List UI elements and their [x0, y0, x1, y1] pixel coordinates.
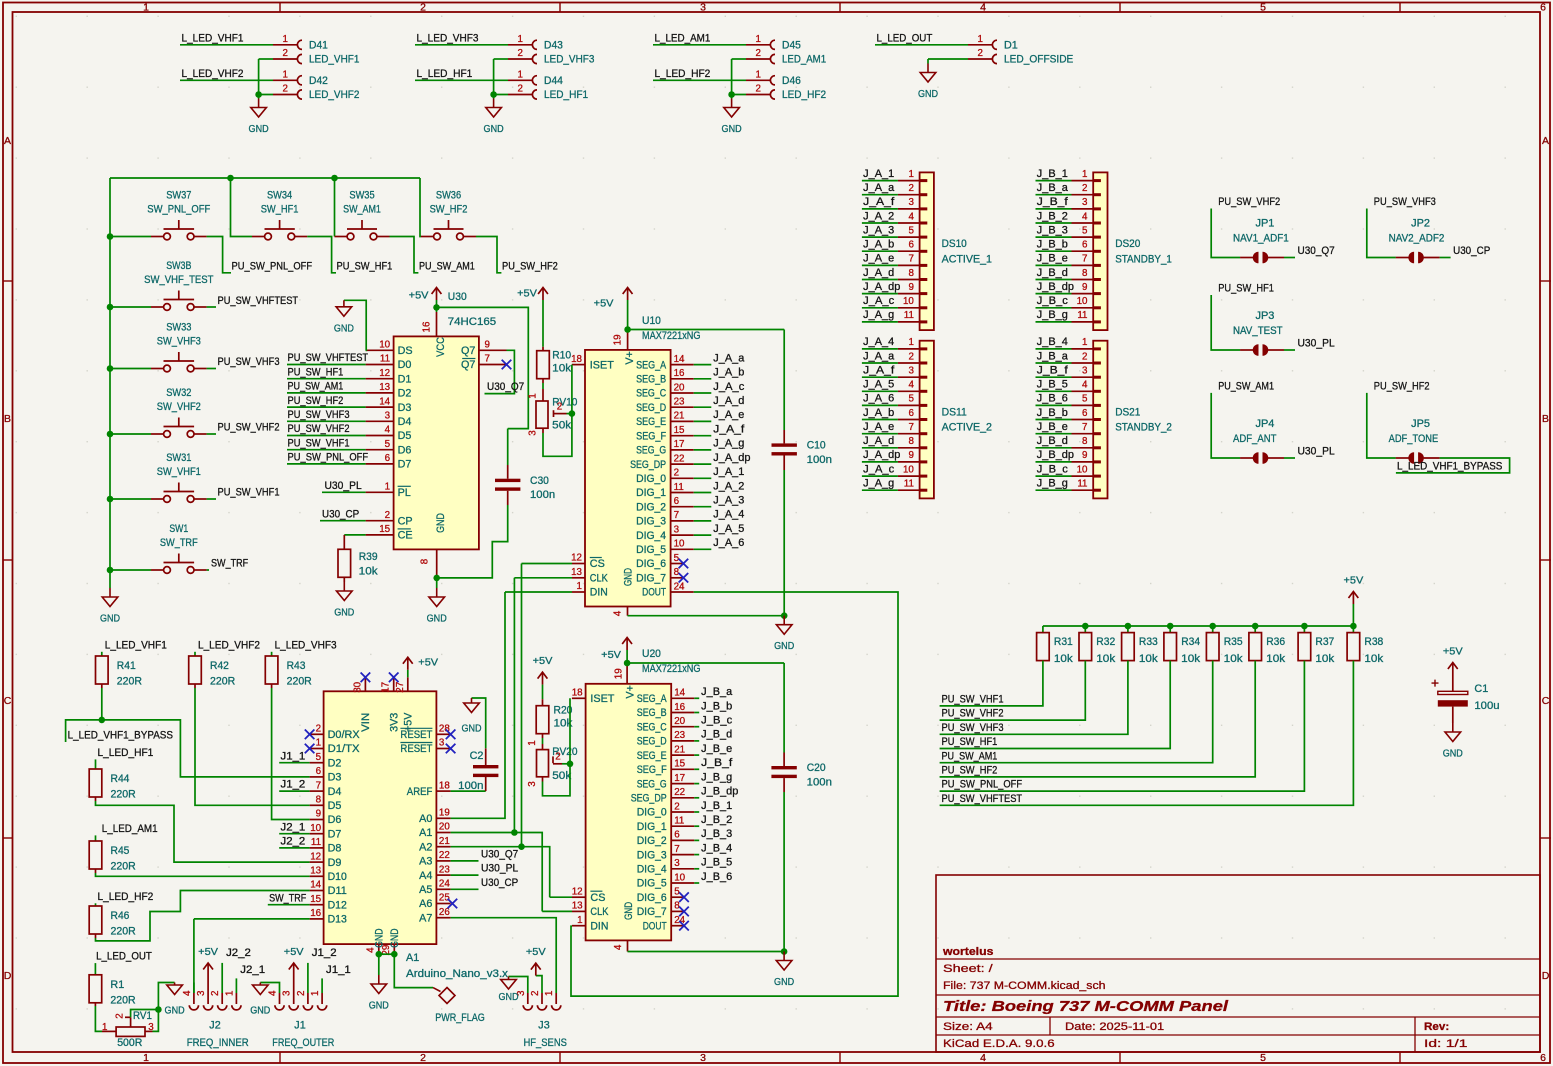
svg-text:R33: R33 [1139, 636, 1158, 648]
svg-text:100n: 100n [807, 777, 832, 789]
svg-text:2: 2 [420, 1052, 426, 1064]
svg-text:20: 20 [439, 822, 450, 833]
svg-text:D: D [4, 970, 12, 982]
svg-text:10: 10 [379, 340, 390, 351]
svg-text:18: 18 [572, 688, 583, 699]
svg-text:FREQ_INNER: FREQ_INNER [187, 1037, 249, 1049]
svg-text:J_B_c: J_B_c [1037, 295, 1069, 307]
svg-text:9: 9 [908, 282, 913, 293]
svg-text:5: 5 [316, 752, 322, 763]
svg-text:PU_SW_VHF1: PU_SW_VHF1 [288, 437, 350, 449]
svg-text:9: 9 [485, 340, 490, 351]
svg-text:24: 24 [674, 581, 685, 592]
svg-text:R10: R10 [552, 350, 571, 362]
svg-text:5: 5 [385, 439, 391, 450]
svg-text:+5V: +5V [1443, 646, 1463, 658]
svg-text:9: 9 [316, 809, 321, 820]
svg-text:SEG_D: SEG_D [637, 736, 667, 748]
svg-text:4: 4 [613, 944, 624, 950]
svg-text:2: 2 [518, 48, 523, 59]
svg-text:A4: A4 [419, 870, 432, 882]
svg-text:3: 3 [674, 524, 680, 535]
svg-text:ISET: ISET [590, 693, 614, 705]
svg-text:C1: C1 [1474, 683, 1488, 695]
svg-text:J_B_e: J_B_e [701, 743, 732, 755]
svg-text:11: 11 [1077, 310, 1087, 321]
svg-text:21: 21 [439, 836, 450, 847]
svg-text:4: 4 [182, 990, 193, 996]
svg-text:LED_HF1: LED_HF1 [544, 89, 588, 101]
svg-text:GND: GND [427, 613, 447, 625]
svg-text:D1: D1 [1004, 40, 1018, 52]
svg-text:U30_CP: U30_CP [1453, 245, 1490, 257]
svg-text:L_LED_OUT: L_LED_OUT [877, 33, 933, 45]
svg-text:2: 2 [908, 351, 913, 362]
svg-text:10: 10 [1077, 464, 1088, 475]
svg-text:PU_SW_PNL_OFF: PU_SW_PNL_OFF [942, 779, 1023, 791]
svg-text:L_LED_VHF3: L_LED_VHF3 [275, 639, 337, 651]
svg-text:11: 11 [904, 310, 914, 321]
svg-text:2: 2 [674, 801, 679, 812]
svg-text:3: 3 [674, 858, 680, 869]
svg-text:FREQ_OUTER: FREQ_OUTER [272, 1037, 334, 1049]
svg-text:J_A_dp: J_A_dp [713, 452, 750, 464]
svg-text:DIG_2: DIG_2 [637, 835, 667, 847]
svg-text:4: 4 [1082, 380, 1088, 391]
svg-text:J_A_c: J_A_c [863, 463, 895, 475]
svg-text:R1: R1 [110, 979, 124, 991]
svg-text:12: 12 [572, 886, 583, 897]
svg-text:A: A [1542, 135, 1549, 147]
svg-text:GND: GND [369, 1000, 389, 1012]
svg-text:21: 21 [674, 744, 685, 755]
svg-text:J_A_5: J_A_5 [713, 523, 744, 535]
svg-text:D8: D8 [328, 843, 342, 855]
svg-text:J1_2: J1_2 [312, 947, 337, 959]
svg-text:100n: 100n [807, 454, 832, 466]
svg-text:4: 4 [268, 990, 279, 996]
svg-text:3: 3 [439, 738, 445, 749]
svg-text:D3: D3 [398, 402, 412, 414]
svg-text:5: 5 [1082, 394, 1088, 405]
svg-text:U30_Q7: U30_Q7 [481, 848, 518, 860]
svg-text:5: 5 [1082, 225, 1088, 236]
svg-text:Q7: Q7 [461, 359, 475, 371]
svg-text:2: 2 [530, 991, 541, 996]
svg-text:STANDBY_1: STANDBY_1 [1115, 253, 1172, 265]
svg-text:3: 3 [700, 1052, 706, 1064]
svg-text:14: 14 [379, 396, 390, 407]
svg-text:8: 8 [674, 567, 680, 578]
svg-text:3: 3 [148, 1022, 154, 1033]
svg-text:4: 4 [908, 380, 914, 391]
svg-text:+5V: +5V [284, 946, 304, 958]
svg-text:SW_TRF: SW_TRF [211, 558, 249, 570]
svg-text:LED_OFFSIDE: LED_OFFSIDE [1004, 54, 1073, 66]
svg-text:2: 2 [756, 84, 761, 95]
svg-text:J_B_2: J_B_2 [701, 814, 732, 826]
svg-text:PU_SW_VHF3: PU_SW_VHF3 [942, 722, 1004, 734]
svg-text:ISET: ISET [590, 359, 614, 371]
svg-text:DIG_3: DIG_3 [637, 849, 667, 861]
svg-text:DOUT: DOUT [642, 587, 666, 599]
svg-text:7: 7 [1082, 254, 1087, 265]
svg-text:6: 6 [1082, 408, 1088, 419]
svg-text:L_LED_AM1: L_LED_AM1 [102, 823, 158, 835]
svg-text:A2: A2 [419, 841, 432, 853]
svg-text:7: 7 [1082, 422, 1087, 433]
svg-text:SEG_B: SEG_B [637, 707, 667, 719]
svg-text:SW_HF1: SW_HF1 [261, 204, 299, 216]
svg-text:B: B [4, 413, 11, 425]
svg-text:D9: D9 [328, 857, 342, 869]
svg-text:D6: D6 [328, 814, 342, 826]
svg-text:2: 2 [978, 48, 983, 59]
svg-text:100n: 100n [458, 780, 483, 792]
svg-text:PU_SW_HF1: PU_SW_HF1 [942, 736, 998, 748]
svg-text:10: 10 [903, 296, 914, 307]
svg-text:1: 1 [385, 482, 390, 493]
svg-text:SW36: SW36 [436, 190, 461, 202]
svg-text:22: 22 [439, 850, 450, 861]
svg-text:1: 1 [518, 34, 523, 45]
svg-text:A: A [4, 135, 11, 147]
svg-text:A1: A1 [406, 952, 419, 964]
svg-text:D2: D2 [328, 757, 342, 769]
svg-text:J_A_5: J_A_5 [863, 379, 894, 391]
svg-text:J_B_dp: J_B_dp [701, 786, 738, 798]
svg-text:SEG_C: SEG_C [637, 721, 667, 733]
svg-text:Date: 2025-11-01: Date: 2025-11-01 [1065, 1021, 1164, 1033]
svg-text:10k: 10k [1315, 653, 1335, 665]
svg-text:1: 1 [143, 2, 149, 14]
svg-text:C20: C20 [807, 762, 826, 774]
svg-text:1: 1 [143, 1052, 149, 1064]
svg-text:SW_VHF2: SW_VHF2 [157, 401, 201, 413]
svg-text:J_A_3: J_A_3 [863, 224, 894, 236]
svg-text:R31: R31 [1054, 636, 1073, 648]
svg-text:D0/RX: D0/RX [328, 729, 360, 741]
svg-text:J_A_6: J_A_6 [863, 393, 894, 405]
svg-text:U20: U20 [642, 648, 661, 660]
svg-text:DIG_2: DIG_2 [636, 501, 666, 513]
svg-text:J_B_g: J_B_g [701, 771, 732, 783]
svg-text:3: 3 [282, 990, 293, 996]
svg-text:C: C [4, 695, 12, 707]
svg-text:J_B_5: J_B_5 [701, 857, 732, 869]
svg-text:J_B_b: J_B_b [701, 700, 732, 712]
svg-text:4: 4 [385, 425, 391, 436]
svg-text:NAV1_ADF1: NAV1_ADF1 [1233, 233, 1289, 245]
svg-text:J_B_f: J_B_f [701, 757, 733, 769]
svg-text:2: 2 [283, 48, 288, 59]
svg-text:2: 2 [1082, 183, 1087, 194]
svg-text:9: 9 [908, 450, 913, 461]
svg-text:D10: D10 [328, 871, 347, 883]
svg-text:7: 7 [908, 422, 913, 433]
svg-text:DIG_7: DIG_7 [637, 906, 667, 918]
svg-text:13: 13 [572, 901, 583, 912]
svg-text:3: 3 [527, 430, 538, 436]
svg-text:SW31: SW31 [166, 452, 191, 464]
svg-text:J_A_g: J_A_g [863, 309, 894, 321]
svg-text:D42: D42 [309, 75, 328, 87]
svg-text:L_LED_VHF1: L_LED_VHF1 [105, 639, 167, 651]
svg-text:SEG_F: SEG_F [636, 430, 666, 442]
svg-text:2: 2 [674, 468, 679, 479]
svg-text:CLK: CLK [590, 906, 609, 918]
svg-text:PU_SW_AM1: PU_SW_AM1 [288, 381, 344, 393]
svg-text:D2: D2 [398, 388, 412, 400]
svg-text:Size: A4: Size: A4 [943, 1021, 993, 1033]
svg-text:500R: 500R [117, 1037, 142, 1049]
svg-text:+5V: +5V [594, 298, 614, 310]
svg-text:JP3: JP3 [1256, 310, 1275, 322]
svg-text:2: 2 [420, 2, 426, 14]
svg-text:J_A_4: J_A_4 [713, 509, 744, 521]
svg-text:SW33: SW33 [166, 322, 191, 334]
svg-text:220R: 220R [110, 994, 135, 1006]
svg-text:2: 2 [210, 991, 221, 996]
svg-text:1: 1 [224, 991, 235, 996]
svg-text:GND: GND [484, 123, 504, 135]
svg-text:17: 17 [381, 682, 392, 693]
svg-text:6: 6 [674, 496, 680, 507]
svg-text:J2_1: J2_1 [281, 821, 306, 833]
svg-text:10: 10 [903, 464, 914, 475]
svg-text:6: 6 [908, 240, 914, 251]
svg-text:15: 15 [310, 894, 321, 905]
svg-text:18: 18 [439, 780, 450, 791]
svg-text:D5: D5 [398, 430, 412, 442]
svg-text:ACTIVE_1: ACTIVE_1 [942, 253, 992, 265]
svg-text:U30_Q7: U30_Q7 [487, 381, 524, 393]
svg-text:3: 3 [1082, 197, 1088, 208]
svg-text:SEG_E: SEG_E [637, 750, 667, 762]
svg-text:J1_1: J1_1 [326, 964, 351, 976]
svg-text:J_B_b: J_B_b [1037, 239, 1068, 251]
svg-text:GND: GND [918, 88, 938, 100]
svg-text:U30_Q7: U30_Q7 [1298, 245, 1335, 257]
svg-text:10k: 10k [1096, 653, 1116, 665]
svg-text:LED_AM1: LED_AM1 [782, 54, 826, 66]
svg-text:PU_SW_HF2: PU_SW_HF2 [942, 765, 998, 777]
svg-text:3: 3 [196, 990, 207, 996]
svg-text:23: 23 [674, 397, 685, 408]
svg-text:D: D [1542, 970, 1550, 982]
svg-text:J_A_4: J_A_4 [863, 336, 894, 348]
svg-text:SW_AM1: SW_AM1 [343, 204, 381, 216]
svg-text:SW3B: SW3B [166, 260, 191, 272]
svg-text:9: 9 [1082, 282, 1087, 293]
svg-text:PU_SW_HF2: PU_SW_HF2 [502, 260, 558, 272]
svg-text:8: 8 [1082, 268, 1088, 279]
svg-text:CLK: CLK [590, 573, 609, 585]
svg-text:2: 2 [555, 752, 560, 763]
svg-text:2: 2 [296, 991, 307, 996]
svg-text:J_B_4: J_B_4 [701, 842, 732, 854]
svg-text:26: 26 [439, 907, 450, 918]
svg-text:5: 5 [1260, 1052, 1266, 1064]
svg-text:D6: D6 [398, 444, 412, 456]
svg-text:1: 1 [908, 337, 913, 348]
svg-text:2: 2 [1082, 351, 1087, 362]
svg-text:PU_SW_VHF3: PU_SW_VHF3 [218, 356, 280, 368]
svg-text:D0: D0 [398, 359, 412, 371]
svg-text:J_B_2: J_B_2 [1037, 210, 1068, 222]
svg-text:SW_PNL_OFF: SW_PNL_OFF [147, 204, 210, 216]
svg-text:PU_SW_AM1: PU_SW_AM1 [942, 750, 998, 762]
svg-text:6: 6 [385, 453, 391, 464]
svg-text:DIN: DIN [590, 920, 608, 932]
svg-text:SEG_D: SEG_D [636, 402, 666, 414]
svg-text:1: 1 [756, 70, 761, 81]
svg-text:L_LED_VHF1_BYPASS: L_LED_VHF1_BYPASS [68, 730, 173, 742]
svg-text:J_B_f: J_B_f [1037, 365, 1069, 377]
svg-text:PU_SW_VHF2: PU_SW_VHF2 [942, 708, 1004, 720]
svg-text:U30_PL: U30_PL [481, 863, 518, 875]
svg-text:DIN: DIN [590, 587, 608, 599]
svg-text:R45: R45 [111, 845, 130, 857]
svg-text:ADF_ANT: ADF_ANT [1233, 433, 1277, 445]
svg-text:GND: GND [461, 723, 481, 735]
svg-text:8: 8 [908, 268, 914, 279]
svg-text:L_LED_VHF3: L_LED_VHF3 [417, 33, 479, 45]
svg-text:D3: D3 [328, 772, 342, 784]
svg-text:KiCad E.D.A. 9.0.6: KiCad E.D.A. 9.0.6 [943, 1038, 1055, 1050]
svg-text:PU_SW_HF2: PU_SW_HF2 [288, 395, 344, 407]
svg-text:J_A_a: J_A_a [863, 350, 894, 362]
svg-text:19: 19 [613, 334, 624, 345]
svg-text:+5V: +5V [601, 649, 621, 661]
svg-text:PU_SW_VHF2: PU_SW_VHF2 [218, 422, 280, 434]
svg-text:U30_PL: U30_PL [325, 480, 362, 492]
svg-text:R42: R42 [210, 660, 229, 672]
svg-text:DS20: DS20 [1115, 238, 1140, 250]
svg-text:J_B_6: J_B_6 [701, 871, 732, 883]
svg-text:11: 11 [904, 479, 914, 490]
svg-text:DS10: DS10 [942, 238, 967, 250]
svg-text:PU_SW_AM1: PU_SW_AM1 [1218, 380, 1274, 392]
svg-text:J_B_3: J_B_3 [1037, 224, 1068, 236]
svg-text:+5V: +5V [418, 657, 438, 669]
svg-text:16: 16 [674, 368, 685, 379]
svg-text:5: 5 [908, 225, 914, 236]
svg-text:SEG_A: SEG_A [636, 359, 667, 371]
svg-text:J2: J2 [209, 1020, 220, 1032]
svg-text:13: 13 [310, 866, 321, 877]
svg-text:20: 20 [674, 382, 685, 393]
svg-text:R32: R32 [1096, 636, 1115, 648]
svg-text:U30_CP: U30_CP [322, 508, 359, 520]
svg-text:J_A_2: J_A_2 [713, 480, 744, 492]
svg-text:R44: R44 [111, 773, 130, 785]
svg-text:100u: 100u [1474, 700, 1499, 712]
svg-text:GND: GND [498, 991, 518, 1003]
svg-text:50k: 50k [552, 420, 572, 432]
svg-text:J_A_g: J_A_g [863, 478, 894, 490]
svg-text:J_A_b: J_A_b [713, 367, 744, 379]
svg-text:SW32: SW32 [166, 387, 191, 399]
svg-text:3: 3 [908, 197, 914, 208]
svg-text:SW37: SW37 [166, 190, 191, 202]
svg-text:VCC: VCC [435, 337, 447, 357]
svg-text:7: 7 [485, 354, 490, 365]
svg-text:J_B_d: J_B_d [1037, 267, 1068, 279]
svg-text:D4: D4 [328, 786, 342, 798]
svg-text:Title: Boeing 737 M-COMM Panel: Title: Boeing 737 M-COMM Panel [943, 999, 1229, 1015]
svg-text:J_A_f: J_A_f [863, 196, 895, 208]
svg-text:7: 7 [908, 254, 913, 265]
svg-text:1: 1 [283, 34, 288, 45]
svg-text:6: 6 [1540, 1052, 1546, 1064]
svg-text:4: 4 [980, 1052, 986, 1064]
svg-text:SEG_G: SEG_G [636, 445, 666, 457]
svg-text:J_A_e: J_A_e [863, 253, 894, 265]
svg-text:2: 2 [316, 724, 321, 735]
svg-text:V+: V+ [624, 351, 636, 365]
svg-text:A7: A7 [419, 912, 432, 924]
svg-text:5: 5 [1260, 2, 1266, 14]
svg-text:R38: R38 [1364, 636, 1383, 648]
svg-text:D12: D12 [328, 899, 347, 911]
svg-text:D46: D46 [782, 75, 801, 87]
svg-text:PU_SW_VHFTEST: PU_SW_VHFTEST [218, 295, 299, 307]
svg-text:SW_TRF: SW_TRF [269, 892, 307, 904]
svg-text:J_B_c: J_B_c [701, 715, 733, 727]
svg-text:12: 12 [379, 368, 390, 379]
svg-text:A6: A6 [419, 898, 432, 910]
svg-text:J_A_d: J_A_d [713, 395, 744, 407]
svg-text:+5V: +5V [517, 288, 537, 300]
svg-text:LED_VHF3: LED_VHF3 [544, 54, 594, 66]
svg-text:18: 18 [571, 354, 582, 365]
svg-text:14: 14 [674, 354, 685, 365]
svg-text:PU_SW_VHFTEST: PU_SW_VHFTEST [942, 793, 1023, 805]
svg-text:J_B_e: J_B_e [1037, 421, 1068, 433]
svg-text:DIG_7: DIG_7 [636, 573, 666, 585]
svg-text:A3: A3 [419, 856, 432, 868]
svg-text:R41: R41 [117, 660, 136, 672]
svg-text:10k: 10k [1266, 653, 1286, 665]
svg-text:15: 15 [674, 759, 685, 770]
svg-text:PU_SW_VHF1: PU_SW_VHF1 [218, 487, 280, 499]
svg-text:DIG_0: DIG_0 [637, 807, 667, 819]
svg-text:GND: GND [250, 1005, 270, 1017]
svg-text:2: 2 [756, 48, 761, 59]
svg-text:3: 3 [908, 366, 914, 377]
svg-text:SW_HF2: SW_HF2 [430, 204, 468, 216]
svg-text:J2_2: J2_2 [226, 947, 251, 959]
svg-text:J_A_6: J_A_6 [713, 537, 744, 549]
svg-text:+5V: +5V [526, 946, 546, 958]
svg-text:SW35: SW35 [349, 190, 374, 202]
svg-text:PU_SW_HF1: PU_SW_HF1 [288, 366, 344, 378]
svg-text:17: 17 [674, 773, 685, 784]
svg-text:1: 1 [908, 169, 913, 180]
svg-text:1: 1 [527, 393, 538, 398]
svg-text:DIG_4: DIG_4 [637, 864, 667, 876]
svg-text:J_B_b: J_B_b [1037, 407, 1068, 419]
svg-text:1: 1 [1082, 337, 1087, 348]
svg-text:10k: 10k [1181, 653, 1201, 665]
svg-text:1: 1 [756, 34, 761, 45]
svg-text:J_A_f: J_A_f [713, 424, 745, 436]
svg-text:2: 2 [557, 402, 562, 413]
svg-text:6: 6 [1082, 240, 1088, 251]
svg-text:14: 14 [674, 688, 685, 699]
svg-text:C: C [1542, 695, 1550, 707]
